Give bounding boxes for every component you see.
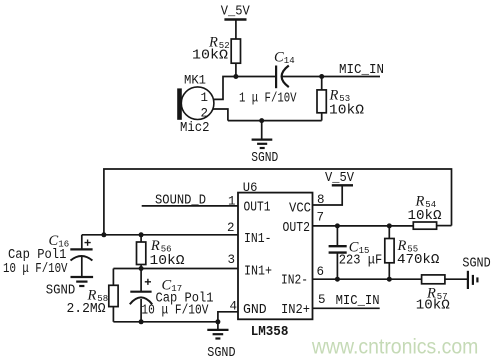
svg-text:Mic2: Mic2 (180, 121, 210, 136)
wire IN1- rail (pin2) (82, 234, 238, 236)
wire bar to R52 (235, 20, 237, 40)
svg-text:C: C (49, 233, 59, 249)
wire IN2- pin6 rail (313, 278, 422, 280)
node junction C15 top (335, 223, 340, 228)
wire feedback top rail (104, 169, 452, 235)
pin label OUT2 (283, 221, 311, 236)
ground SGND stem (pin4) (217, 322, 219, 330)
label SGND (top circuit) (251, 151, 278, 166)
svg-text:5: 5 (318, 293, 326, 307)
svg-text:14: 14 (284, 56, 295, 66)
label R58 (87, 288, 109, 305)
label MK1 (184, 73, 206, 88)
svg-text:2: 2 (201, 107, 209, 121)
label R56 value 10kΩ (150, 253, 185, 269)
svg-text:1 μ F/10V: 1 μ F/10V (239, 90, 297, 106)
svg-text:SOUND_D: SOUND_D (155, 193, 206, 208)
label R53 value 10kΩ (329, 103, 364, 119)
wire C16 to ground (81, 257, 83, 278)
label U6 (243, 180, 258, 195)
resistor R53 (317, 90, 326, 113)
ground SGND bars (right, rotated) (468, 271, 478, 289)
svg-text:10 μ F/10V: 10 μ F/10V (141, 304, 209, 319)
pin label IN1- (244, 232, 272, 247)
pin number 7 (317, 210, 325, 224)
node junction pin4 ground (215, 319, 220, 324)
pin number 6 (317, 265, 325, 279)
wire VCC pin8 (313, 185, 343, 205)
label C16 plus (85, 240, 91, 246)
op-amp U6 box (238, 193, 313, 320)
label R52 value 10kΩ (192, 48, 228, 64)
wire C16 stem upper (81, 235, 83, 250)
svg-text:V_5V: V_5V (325, 171, 355, 186)
wire R52 to node (235, 63, 237, 76)
label R56 (150, 238, 172, 255)
label C17 value 10uF/10V (141, 304, 209, 319)
wire IN1+ rail (pin3) (113, 268, 238, 270)
label LM358 (251, 324, 289, 340)
node junction R55 top (387, 223, 392, 228)
svg-text:C: C (274, 50, 284, 66)
svg-text:1: 1 (201, 91, 209, 105)
resistor R58 (109, 285, 118, 322)
pin label IN1+ (244, 265, 272, 280)
svg-text:10 μ F/10V: 10 μ F/10V (3, 262, 68, 277)
svg-text:R: R (150, 238, 160, 254)
svg-text:10kΩ: 10kΩ (416, 297, 450, 313)
node junction R55 bottom (387, 277, 392, 282)
svg-text:IN2-: IN2- (281, 274, 308, 289)
ground SGND stem (top circuit) (261, 121, 263, 140)
svg-text:LM358: LM358 (251, 324, 289, 340)
svg-text:10kΩ: 10kΩ (408, 208, 442, 224)
svg-text:10kΩ: 10kΩ (329, 103, 364, 119)
wire R58 branch down (112, 269, 114, 286)
capacitor C16 curved plate (71, 256, 93, 261)
svg-text:SGND: SGND (207, 346, 235, 361)
svg-text:MK1: MK1 (184, 73, 206, 88)
capacitor C17 curved plate (130, 297, 152, 304)
svg-text:4: 4 (230, 300, 238, 314)
pin label GND (243, 303, 267, 318)
svg-text:10kΩ: 10kΩ (150, 253, 185, 269)
svg-text:VCC: VCC (289, 202, 311, 217)
label SOUND_D (155, 193, 206, 208)
svg-text:1: 1 (228, 194, 236, 208)
resistor R55 (385, 226, 394, 279)
resistor R52 (231, 39, 240, 63)
label C17 plus (145, 279, 151, 285)
capacitor C17 flat plate (130, 291, 151, 293)
label SGND (C16) (46, 284, 76, 299)
capacitor C15 plates (329, 246, 347, 252)
wire bottom rail (mic ground rail) (228, 120, 322, 122)
power bar V_5V (top) (224, 18, 246, 20)
label C17 (162, 278, 183, 295)
svg-text:SGND: SGND (462, 257, 490, 272)
wire pin4 GND stub (218, 312, 238, 322)
wire bottom rail (R58/C17/GND pin4) (113, 321, 217, 323)
label C14 (274, 50, 295, 67)
pin number 8 (317, 193, 325, 207)
label R57 value 10kΩ (416, 297, 450, 313)
pin 2 label (201, 107, 209, 121)
label R58 value 2.2MΩ (67, 301, 106, 317)
label R55 value 470kΩ (397, 252, 439, 268)
svg-text:V_5V: V_5V (221, 4, 251, 19)
wire R53 to ground rail (321, 113, 323, 121)
wire SOUND_D to pin1 (142, 205, 238, 207)
svg-text:OUT1: OUT1 (244, 201, 271, 216)
svg-text:2: 2 (227, 221, 235, 235)
label R54 value 10kΩ (408, 208, 442, 224)
wire R57 to SGND (445, 278, 468, 280)
pin label IN2- (281, 274, 308, 289)
svg-text:6: 6 (317, 265, 325, 279)
pin number 4 (230, 300, 238, 314)
pin number 3 (228, 253, 236, 267)
node junction C17 bottom (139, 319, 144, 324)
ground SGND bars (pin4) (207, 330, 228, 339)
svg-text:SGND: SGND (251, 151, 278, 166)
capacitor C14 curved plate (282, 66, 289, 88)
svg-text:3: 3 (228, 253, 236, 267)
wire IN2+ pin5 MIC_IN (313, 307, 380, 309)
svg-text:2.2MΩ: 2.2MΩ (67, 301, 106, 317)
label C15 value 223uF (339, 252, 382, 268)
wire C17 to bottom rail (140, 299, 142, 322)
wire mic pin2 down to bottom rail (213, 109, 228, 121)
resistor R57 (422, 275, 445, 284)
node junction C14/R53 (319, 74, 324, 79)
watermark www.cntronics.com (311, 335, 478, 359)
svg-text:223 μF: 223 μF (339, 252, 382, 268)
svg-text:GND: GND (243, 303, 267, 318)
label R53 (329, 88, 351, 105)
microphone element bar (177, 88, 182, 119)
label R52 (208, 35, 230, 52)
node junction left vertical / IN1- rail (101, 232, 106, 237)
label SGND (right) (462, 257, 490, 272)
power V_5V label (U6) (325, 171, 355, 186)
node junction R56/C17 (139, 266, 144, 271)
svg-text:U6: U6 (243, 180, 258, 195)
resistor R56 (137, 235, 146, 269)
node junction C15 bottom (335, 277, 340, 282)
svg-text:IN1-: IN1- (244, 232, 272, 247)
node junction ground rail (259, 118, 264, 123)
svg-text:7: 7 (317, 210, 325, 224)
label C15 (349, 240, 370, 257)
wire OUT2 pin7 rail (313, 225, 414, 227)
label C14 value 1uF/10V (239, 90, 297, 106)
svg-text:www.cntronics.com: www.cntronics.com (311, 335, 478, 359)
svg-text:IN1+: IN1+ (244, 265, 272, 280)
svg-text:R: R (329, 88, 339, 104)
wire R54 to feedback rail (437, 225, 452, 227)
label C17 Cap Pol1 (156, 291, 214, 306)
wire node to R53 (321, 77, 323, 90)
svg-text:10kΩ: 10kΩ (192, 48, 228, 64)
resistor R54 (413, 222, 436, 229)
capacitor C15 stem top (336, 226, 338, 246)
pin label IN2+ (281, 303, 310, 318)
pin 1 label (201, 91, 209, 105)
pin number 1 (228, 194, 236, 208)
svg-text:SGND: SGND (46, 284, 76, 299)
label MIC_IN (pin5) (336, 294, 380, 309)
power V_5V label (top) (221, 4, 251, 19)
label R57 (426, 286, 448, 303)
svg-text:MIC_IN: MIC_IN (336, 294, 380, 309)
ground SGND bars (C16) (71, 277, 94, 286)
svg-text:IN2+: IN2+ (281, 303, 310, 318)
microphone MK1 circle (181, 87, 214, 120)
svg-text:MIC_IN: MIC_IN (339, 63, 384, 78)
capacitor C16 flat plate (70, 248, 92, 250)
pin number 2 (227, 221, 235, 235)
svg-text:OUT2: OUT2 (283, 221, 311, 236)
label R55 (397, 238, 419, 255)
wire C14 to MIC_IN (283, 76, 381, 78)
pin label VCC (289, 202, 311, 217)
label MIC_IN (top) (339, 63, 384, 78)
label SGND (pin4) (207, 346, 235, 361)
capacitor C15 stem bottom (336, 253, 338, 280)
label Mic2 (180, 121, 210, 136)
node junction R52/C14 (233, 74, 238, 79)
pin label OUT1 (244, 201, 271, 216)
ground SGND bars (top circuit) (252, 140, 273, 148)
capacitor C14 left plate (275, 66, 277, 89)
wire mic pin1 to node (213, 77, 276, 100)
label C16 Cap Pol1 (8, 248, 66, 263)
label R54 (415, 194, 437, 211)
pin number 5 (318, 293, 326, 307)
node junction R56 top (139, 232, 144, 237)
label C16 (49, 233, 70, 250)
label C16 value 10uF/10V (3, 262, 68, 277)
power bar V_5V (U6) (332, 184, 353, 186)
svg-text:470kΩ: 470kΩ (397, 252, 439, 268)
wire C17 stem upper (140, 269, 142, 292)
